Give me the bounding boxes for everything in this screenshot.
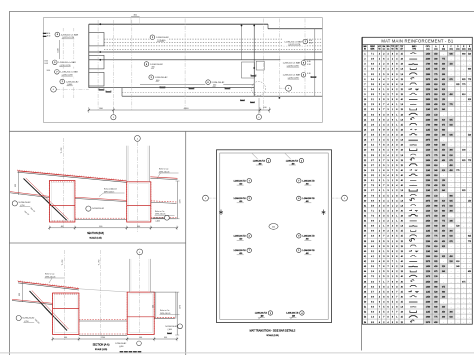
svg-text:675: 675	[434, 109, 437, 111]
svg-text:1.6: 1.6	[400, 307, 403, 309]
A-A between-pit slab top	[79, 319, 127, 321]
svg-text:1780: 1780	[426, 185, 430, 187]
svg-text:28: 28	[401, 150, 403, 152]
svg-text:640: 640	[434, 64, 437, 66]
svg-text:1-20M-200-T-B: 1-20M-200-T-B	[234, 198, 247, 200]
table row 3	[364, 64, 470, 66]
plan dimension line	[89, 109, 270, 111]
pit2 right wall hatch	[150, 182, 151, 220]
svg-text:40: 40	[401, 210, 403, 212]
svg-text:25: 25	[401, 322, 403, 324]
svg-text:810: 810	[449, 124, 452, 126]
svg-text:300: 300	[442, 135, 445, 137]
bar hook	[99, 89, 104, 91]
section B-B centerline TL-762	[62, 138, 64, 228]
svg-text:1 3: 1 3	[371, 317, 374, 319]
svg-text:150: 150	[468, 200, 471, 202]
svg-text:450: 450	[434, 241, 437, 243]
table row 34	[364, 221, 470, 223]
transition callout T1	[252, 153, 271, 165]
A-A top hatch	[18, 280, 78, 288]
svg-text:675: 675	[442, 205, 445, 207]
svg-text:300: 300	[462, 150, 465, 152]
A-A callout right mat	[178, 324, 183, 329]
svg-text:925: 925	[434, 150, 437, 152]
svg-text:3: 3	[54, 62, 55, 64]
svg-text:9 9: 9 9	[371, 231, 374, 233]
table row 42	[364, 261, 470, 263]
svg-text:980: 980	[442, 291, 445, 293]
table row 19	[364, 145, 470, 147]
svg-text:340: 340	[456, 266, 459, 268]
bar hook	[189, 87, 194, 89]
svg-text:QTY: QTY	[395, 46, 398, 48]
table row 51	[364, 307, 470, 309]
svg-text:9 3: 9 3	[371, 114, 374, 116]
svg-text:SECTION (A-A): SECTION (A-A)	[93, 344, 110, 347]
svg-text:1675: 1675	[426, 276, 430, 278]
svg-text:25: 25	[401, 165, 403, 167]
svg-text:5 3: 5 3	[371, 266, 374, 268]
svg-text:2260: 2260	[426, 119, 430, 121]
svg-text:SCALE (1:25): SCALE (1:25)	[95, 348, 108, 351]
svg-text:2875: 2875	[426, 200, 430, 202]
node bullet	[279, 97, 281, 99]
svg-text:1-20M-200 c/c BAR: 1-20M-200 c/c BAR	[283, 74, 301, 77]
svg-text:1-20M-200-T-B: 1-20M-200-T-B	[302, 250, 315, 252]
B-B between-pit slab top	[75, 217, 127, 219]
svg-text:3 6: 3 6	[371, 241, 374, 243]
svg-text:1.6: 1.6	[400, 266, 403, 268]
svg-text:28: 28	[401, 216, 403, 218]
svg-text:6: 6	[208, 82, 209, 84]
svg-text:300: 300	[442, 74, 445, 76]
svg-text:28: 28	[401, 59, 403, 61]
anchor notch 3	[89, 72, 104, 86]
svg-text:810: 810	[434, 94, 437, 96]
svg-text:40: 40	[401, 221, 403, 223]
svg-text:REINF: REINF	[370, 46, 375, 48]
svg-text:7: 7	[298, 180, 299, 182]
B-B lower bars slope a	[10, 193, 50, 198]
svg-text:640: 640	[449, 135, 452, 137]
B-B bottom dimension line	[50, 227, 178, 229]
bar hook	[311, 76, 316, 78]
svg-text:640: 640	[449, 54, 452, 56]
page bottom edge	[0, 352, 474, 354]
svg-text:450: 450	[434, 185, 437, 187]
table row 26	[364, 180, 470, 182]
bar hook	[134, 351, 137, 352]
B-B callout bottom right	[165, 215, 170, 220]
B-B right mat top red dashed	[151, 201, 177, 202]
svg-text:4400: 4400	[184, 108, 190, 110]
svg-text:450: 450	[468, 271, 471, 273]
A-A pit right hatch	[79, 294, 80, 332]
transition callout L3	[234, 234, 252, 241]
svg-text:1145: 1145	[426, 130, 430, 132]
table row 4	[364, 68, 471, 71]
svg-text:4: 4	[139, 252, 140, 254]
lower band dashed	[122, 92, 322, 94]
plan centerline	[262, 19, 264, 110]
svg-text:40: 40	[401, 185, 403, 187]
anchor notch 2	[89, 55, 104, 69]
svg-text:1-20M-200 c/c BAR: 1-20M-200 c/c BAR	[284, 40, 302, 43]
svg-text:340: 340	[442, 64, 445, 66]
svg-text:450: 450	[434, 104, 437, 106]
svg-text:(mm): (mm)	[462, 48, 466, 50]
svg-text:28: 28	[401, 145, 403, 147]
svg-text:7 1: 7 1	[371, 54, 374, 56]
svg-text:1500: 1500	[58, 48, 60, 52]
svg-text:40: 40	[401, 276, 403, 278]
B-B callout right	[86, 206, 91, 211]
svg-text:8 3: 8 3	[371, 94, 374, 96]
svg-text:775: 775	[434, 155, 437, 157]
table row 52	[364, 311, 470, 314]
svg-text:1450: 1450	[426, 236, 430, 238]
svg-text:925: 925	[434, 231, 437, 233]
svg-text:1370: 1370	[180, 200, 182, 204]
table row 38	[364, 238, 471, 242]
A-A diagonal dowel bar	[30, 291, 68, 331]
svg-text:1330: 1330	[426, 226, 430, 228]
viewport divider vertical table	[361, 37, 363, 350]
table row 10	[364, 99, 471, 101]
table row 15	[364, 123, 470, 126]
svg-text:925: 925	[434, 99, 437, 101]
svg-text:520: 520	[434, 130, 437, 132]
rebar dashed line 2	[104, 45, 322, 47]
A-A wall above pit	[129, 259, 131, 292]
svg-text:E.M.: E.M.	[47, 70, 51, 72]
svg-text:E.M.: E.M.	[307, 61, 311, 63]
svg-text:2: 2	[249, 198, 250, 200]
svg-text:640: 640	[434, 307, 437, 309]
svg-text:25: 25	[401, 54, 403, 56]
callout A1	[55, 31, 79, 39]
svg-text:450: 450	[434, 54, 437, 56]
svg-text:610: 610	[456, 261, 459, 263]
svg-text:B: B	[443, 46, 444, 48]
svg-text:1.6: 1.6	[400, 200, 403, 202]
svg-text:810: 810	[434, 175, 437, 177]
B-B top surface black line	[18, 172, 127, 182]
table row 50	[364, 302, 470, 304]
svg-text:600: 600	[164, 337, 167, 339]
node bullet	[99, 23, 101, 25]
svg-text:7 6: 7 6	[371, 216, 374, 218]
svg-text:810: 810	[468, 99, 471, 101]
svg-text:2 8: 2 8	[371, 130, 374, 132]
svg-text:775: 775	[462, 84, 465, 86]
svg-text:340: 340	[434, 251, 437, 253]
svg-text:1-20M-200-T-B: 1-20M-200-T-B	[286, 313, 299, 315]
transition callout L2	[234, 196, 252, 203]
svg-text:Extra (L/4)dowel: Extra (L/4)dowel	[104, 188, 117, 191]
pile dashed circle	[252, 82, 266, 96]
svg-text:775: 775	[468, 241, 471, 243]
svg-text:400: 400	[137, 226, 140, 228]
svg-text:(-)400: (-)400	[156, 220, 160, 222]
svg-text:28: 28	[401, 109, 403, 111]
dimension tick	[259, 109, 261, 111]
svg-text:E: E	[463, 46, 464, 48]
B-B right pit mid red bar	[127, 205, 151, 207]
svg-text:(mm): (mm)	[450, 48, 454, 50]
svg-text:775: 775	[456, 170, 459, 172]
svg-text:28: 28	[401, 246, 403, 248]
svg-text:810: 810	[449, 205, 452, 207]
bar hook	[160, 86, 165, 88]
wall edge vertical	[253, 24, 255, 96]
svg-text:1-20M-200-T-B: 1-20M-200-T-B	[234, 236, 247, 238]
svg-text:28: 28	[401, 130, 403, 132]
svg-text:8 3: 8 3	[371, 286, 374, 288]
plan centerline	[97, 20, 99, 110]
svg-text:450: 450	[434, 216, 437, 218]
table row 24	[364, 169, 470, 172]
svg-text:300: 300	[442, 155, 445, 157]
svg-text:4: 4	[303, 75, 304, 77]
svg-text:600: 600	[99, 226, 102, 228]
svg-text:610: 610	[442, 89, 445, 91]
svg-text:4 2: 4 2	[371, 256, 374, 258]
svg-text:1-25M-200-B2: 1-25M-200-B2	[153, 217, 164, 219]
svg-text:TL-762: TL-762	[61, 148, 63, 154]
table row 12	[364, 108, 470, 111]
svg-text:6 6: 6 6	[371, 150, 374, 152]
pier outline right	[256, 61, 264, 70]
svg-text:340: 340	[442, 226, 445, 228]
svg-text:1450: 1450	[426, 54, 430, 56]
table row 53	[364, 316, 470, 319]
svg-text:775: 775	[434, 74, 437, 76]
svg-text:1-20M-200-B2: 1-20M-200-B2	[156, 37, 170, 39]
svg-text:5 2: 5 2	[371, 251, 374, 253]
svg-text:(mm): (mm)	[456, 48, 460, 50]
svg-text:450: 450	[449, 94, 452, 96]
strip right end edge	[314, 29, 316, 96]
transition callout R1	[297, 179, 316, 186]
svg-text:3 9: 3 9	[371, 59, 374, 61]
svg-text:25: 25	[401, 241, 403, 243]
svg-text:925: 925	[434, 312, 437, 314]
svg-text:675: 675	[462, 281, 465, 283]
svg-text:400: 400	[272, 226, 275, 228]
svg-text:450: 450	[442, 241, 445, 243]
plan centerline	[73, 28, 75, 98]
grid bubble 6	[258, 110, 260, 114]
table row 44	[364, 270, 471, 273]
svg-text:TYP: TYP	[391, 46, 394, 48]
svg-text:9 2: 9 2	[371, 302, 374, 304]
table row 31	[364, 205, 470, 208]
svg-text:980: 980	[434, 286, 437, 288]
transition callout B1	[255, 311, 273, 320]
svg-text:2 6: 2 6	[371, 261, 374, 263]
svg-text:450: 450	[442, 69, 445, 71]
svg-text:5 8: 5 8	[371, 84, 374, 86]
svg-text:775: 775	[468, 79, 471, 81]
svg-text:300: 300	[449, 210, 452, 212]
B-B top hatch	[17, 170, 125, 181]
grid line G-left	[56, 88, 89, 90]
svg-text:4 8: 4 8	[371, 246, 374, 248]
svg-text:6 9: 6 9	[371, 200, 374, 202]
svg-text:40: 40	[401, 170, 403, 172]
svg-text:980: 980	[442, 130, 445, 132]
svg-text:5 8: 5 8	[371, 69, 374, 71]
svg-text:40: 40	[401, 261, 403, 263]
callout M3	[148, 74, 168, 82]
svg-text:640: 640	[442, 109, 445, 111]
table row 46	[364, 280, 470, 284]
svg-text:8 9: 8 9	[371, 226, 374, 228]
A-A right zone line	[150, 291, 176, 293]
svg-text:340: 340	[449, 221, 452, 223]
svg-text:450: 450	[442, 160, 445, 162]
grid bubble wall B-B	[135, 136, 141, 142]
pit right wall hatch	[75, 181, 76, 219]
table row 25	[364, 174, 470, 177]
svg-text:1780: 1780	[426, 246, 430, 248]
transition callout L4	[234, 248, 252, 255]
svg-text:300: 300	[434, 140, 437, 142]
svg-text:300: 300	[449, 150, 452, 152]
svg-text:28: 28	[401, 312, 403, 314]
table row grid	[362, 55, 472, 57]
table row 54	[364, 320, 470, 324]
svg-text:40: 40	[401, 286, 403, 288]
plan centerline	[304, 19, 306, 97]
svg-text:1.6: 1.6	[400, 84, 403, 86]
bar hook	[43, 33, 46, 34]
table row 41	[364, 255, 470, 258]
svg-text:1-20M-200-T-B: 1-20M-200-T-B	[302, 236, 315, 238]
table row 35	[364, 226, 470, 228]
svg-text:450: 450	[449, 256, 452, 258]
table row 20	[364, 149, 470, 152]
svg-text:150: 150	[434, 114, 437, 116]
svg-text:E.W.: E.W.	[45, 63, 49, 65]
svg-text:2260: 2260	[426, 241, 430, 243]
svg-text:9: 9	[344, 198, 345, 200]
svg-text:7 9: 7 9	[371, 195, 374, 197]
A-A lower bars slope	[12, 301, 53, 305]
svg-text:4 7: 4 7	[371, 140, 374, 142]
svg-text:150: 150	[449, 64, 452, 66]
svg-text:4: 4	[298, 198, 299, 200]
svg-text:925: 925	[442, 256, 445, 258]
svg-text:1450: 1450	[426, 84, 430, 86]
viewport divider vertical mid	[185, 131, 187, 355]
transition edge mark right	[322, 210, 326, 216]
grid bubble wall A-A	[137, 249, 143, 255]
svg-text:610: 610	[449, 317, 452, 319]
grid bubble G-left	[51, 87, 57, 93]
svg-text:6 8: 6 8	[371, 64, 374, 66]
plan centerline	[113, 20, 115, 114]
A-A pit left hatch	[52, 294, 53, 332]
svg-text:1450: 1450	[426, 145, 430, 147]
grid bubble 5	[112, 110, 114, 114]
svg-text:1-20M-200 c/c BAR: 1-20M-200 c/c BAR	[58, 61, 76, 64]
svg-text:1.6: 1.6	[400, 104, 403, 106]
table row 48	[364, 290, 470, 293]
svg-text:1960: 1960	[426, 135, 430, 137]
svg-text:520: 520	[434, 210, 437, 212]
pit2 left wall hatch	[126, 182, 127, 220]
svg-text:925: 925	[434, 261, 437, 263]
bar hook	[106, 91, 111, 93]
svg-text:1960: 1960	[426, 317, 430, 319]
svg-text:1960: 1960	[426, 195, 430, 197]
svg-text:3 5: 3 5	[371, 175, 374, 177]
svg-text:3 3: 3 3	[371, 119, 374, 121]
svg-text:(-)400: (-)400	[168, 329, 172, 331]
svg-text:1220: 1220	[426, 150, 430, 152]
svg-text:1.6: 1.6	[400, 69, 403, 71]
svg-text:1-20M-200-B2: 1-20M-200-B2	[66, 81, 80, 83]
svg-text:1960: 1960	[426, 74, 430, 76]
svg-text:450: 450	[434, 135, 437, 137]
svg-text:340: 340	[442, 145, 445, 147]
svg-text:1-20M-200 c/c BAR: 1-20M-200 c/c BAR	[283, 62, 301, 65]
A-A slope faint continuation	[79, 289, 127, 292]
table row 49	[364, 296, 470, 299]
svg-text:1-20M-200-T-B: 1-20M-200-T-B	[255, 313, 268, 315]
strip inner edge	[89, 51, 322, 53]
svg-text:25: 25	[401, 291, 403, 293]
svg-text:610: 610	[449, 155, 452, 157]
svg-text:5: 5	[113, 117, 114, 119]
svg-text:775: 775	[434, 317, 437, 319]
svg-text:400: 400	[61, 226, 64, 228]
svg-text:1675: 1675	[426, 216, 430, 218]
svg-text:28: 28	[401, 271, 403, 273]
B-B left pit red outline	[50, 181, 75, 223]
callout R2	[280, 60, 306, 68]
svg-text:925: 925	[449, 119, 452, 121]
svg-text:1145: 1145	[426, 170, 430, 172]
svg-text:4 8: 4 8	[371, 236, 374, 238]
table row 18	[364, 140, 470, 142]
svg-text:1145: 1145	[426, 69, 430, 71]
A-A right pit mid red bar	[127, 316, 154, 318]
svg-text:7 1: 7 1	[371, 210, 374, 212]
table row 43	[364, 266, 470, 268]
svg-text:300: 300	[442, 317, 445, 319]
svg-text:MAT MAIN REINFORCEMENT - B1: MAT MAIN REINFORCEMENT - B1	[381, 38, 453, 43]
svg-text:1-20M-200-T-B: 1-20M-200-T-B	[286, 160, 299, 162]
svg-text:NO: NO	[378, 48, 380, 50]
svg-text:980: 980	[462, 54, 465, 56]
callout M2	[144, 61, 164, 69]
svg-text:3 1: 3 1	[371, 99, 374, 101]
A-A right mat top red dashed	[154, 316, 175, 318]
svg-text:25: 25	[401, 89, 403, 91]
wall edge vertical 2	[241, 24, 243, 60]
svg-text:925: 925	[442, 94, 445, 96]
svg-text:450: 450	[434, 297, 437, 299]
svg-text:Refer to Civ.: Refer to Civ.	[160, 309, 170, 312]
A-A pit top hatch	[53, 294, 77, 295]
svg-text:775: 775	[434, 236, 437, 238]
svg-text:2875: 2875	[426, 140, 430, 142]
plan centerline	[184, 19, 186, 110]
